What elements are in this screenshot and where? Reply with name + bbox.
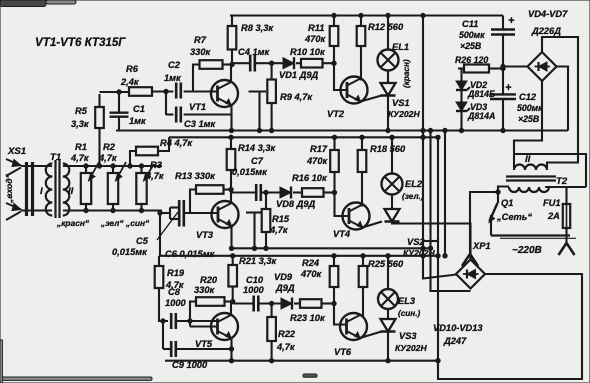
wire bridge minus: [557, 67, 569, 131]
resistor R24: [330, 256, 339, 304]
capacitor C10 label: [243, 275, 265, 295]
plug XP1 pin 1: [462, 254, 478, 266]
thyristor VS3: [381, 319, 396, 332]
potentiometer R3 label: [145, 160, 165, 181]
transistor VT2 label: [327, 109, 345, 119]
resistor R15: [262, 190, 271, 248]
svg-text:470к: 470к: [300, 269, 323, 279]
svg-text:КУ202Н: КУ202Н: [395, 343, 427, 353]
resistor R26: [458, 65, 505, 73]
svg-text:FU1: FU1: [543, 198, 561, 208]
svg-text:VT1: VT1: [189, 102, 206, 112]
lamp EL2 label: [405, 179, 423, 189]
T1 core: [56, 160, 60, 218]
diode VD8 label: [276, 199, 316, 209]
wire XS1 to T1 top: [21, 165, 52, 167]
resistor R20: [188, 297, 233, 326]
caption VT1-VT6 KT315G: [35, 36, 126, 49]
T2 core: [506, 177, 556, 181]
resistor R13: [190, 185, 231, 213]
svg-text:VT6: VT6: [334, 347, 352, 357]
capacitor C9: [161, 319, 176, 357]
svg-text:R16 10к: R16 10к: [292, 173, 328, 183]
resistor R6 label: [120, 64, 140, 87]
label sin: [125, 218, 150, 228]
emitter stub row2: [246, 213, 262, 249]
resistor R11: [330, 16, 339, 64]
svg-text:VT1-VT6 КТ315Г: VT1-VT6 КТ315Г: [35, 36, 126, 49]
wire VD1 to R10: [296, 62, 301, 64]
spare vertical: [443, 128, 447, 258]
ground rail row1: [116, 128, 568, 132]
link row2 grounds: [423, 240, 438, 242]
label krasn: [56, 218, 90, 228]
capacitor C12 plus: [505, 82, 512, 94]
bridge rectifier VD4-VD7: [528, 52, 557, 81]
capacitor C7: [231, 184, 261, 201]
switch Q1 label: [496, 198, 532, 222]
transistor VT1: [211, 80, 238, 107]
capacitor C7 label: [232, 156, 268, 177]
wire VD9 to R23: [294, 302, 300, 304]
resistor R5 label: [71, 106, 90, 129]
svg-text:R15: R15: [272, 214, 290, 224]
fuse FU1: [563, 204, 570, 243]
svg-text:R22: R22: [278, 329, 296, 339]
resistor R23: [300, 299, 322, 308]
svg-text:R12 560: R12 560: [368, 22, 404, 32]
svg-text:Q1: Q1: [501, 198, 513, 208]
svg-text:R5: R5: [75, 106, 88, 116]
T2 winding II: [514, 165, 547, 171]
capacitor C8: [171, 313, 218, 329]
potentiometer R1 label: [70, 142, 90, 163]
wire C7 to VD8: [261, 191, 280, 193]
wire XS1 to T1 bottom: [21, 209, 52, 211]
vertical link C2-C3: [164, 89, 168, 115]
wire XP1 branch: [470, 190, 500, 254]
top rail row1: [230, 13, 503, 17]
svg-text:R14 3,3к: R14 3,3к: [238, 143, 277, 153]
label sin row3: [398, 309, 421, 318]
resistor R7: [193, 60, 232, 91]
wire R23 to R24: [322, 302, 335, 304]
return vertical row2: [428, 128, 470, 291]
zener VD3 label: [467, 102, 495, 121]
thyristor VS1 label: [388, 98, 420, 119]
T1 winding I label: [40, 186, 43, 197]
lamp EL1 label: [392, 42, 409, 52]
T2 winding II label: [525, 154, 531, 165]
feed rail row2: [169, 135, 438, 139]
svg-text:4,7к: 4,7к: [70, 153, 90, 163]
input arrow 1: [6, 159, 21, 176]
svg-text:VD8 Д9Д: VD8 Д9Д: [276, 199, 316, 209]
svg-text:R1: R1: [75, 142, 87, 152]
svg-text:(зел.): (зел.): [402, 192, 424, 201]
svg-text:С7: С7: [251, 156, 264, 166]
capacitor C4: [232, 55, 255, 72]
supply vertical to lamp bridge: [421, 13, 457, 278]
svg-text:Д814А: Д814А: [467, 111, 495, 121]
wire base VT4: [332, 190, 349, 216]
svg-text:R20: R20: [200, 275, 218, 285]
wire pots to C5C6: [159, 211, 161, 256]
resistor R14: [227, 137, 236, 189]
bottom loop to mains bridge: [438, 274, 582, 379]
wire R5 top to R6: [100, 91, 130, 93]
rail link vertical: [436, 135, 440, 363]
svg-text:R25 560: R25 560: [368, 259, 404, 269]
resistor R9: [267, 63, 276, 130]
transformer T2 label: [556, 176, 568, 187]
wire VT5 emitter: [229, 338, 233, 361]
capacitor C2: [176, 83, 181, 99]
label zel row2: [402, 192, 424, 201]
svg-text:+: +: [508, 15, 515, 27]
capacitor C9 label: [172, 360, 208, 370]
transistor VT6: [340, 313, 367, 340]
svg-text:С5: С5: [136, 236, 149, 246]
transistor VT3 label: [196, 230, 214, 240]
wire VT2 emitter to VS1 gate: [361, 96, 382, 102]
svg-text:С11: С11: [462, 19, 478, 29]
transistor VT4: [343, 203, 370, 230]
resistor R8 label: [241, 23, 274, 33]
emitter stub row1: [249, 92, 267, 131]
svg-text:R4 4,7к: R4 4,7к: [160, 138, 193, 148]
svg-text:×25В: ×25В: [518, 114, 540, 124]
wire VT1 emitter: [230, 105, 232, 131]
wire R6 to C2: [152, 90, 173, 92]
potentiometer R2: [108, 162, 126, 211]
ground rail row3: [165, 359, 438, 363]
resistor R18 label: [370, 144, 406, 154]
resistor R19 label: [165, 268, 185, 290]
wire VD8 to R16: [293, 191, 302, 193]
wire bridge ac bottom: [514, 81, 542, 168]
zener VD3: [456, 91, 470, 111]
svg-text:~220В: ~220В: [512, 245, 542, 256]
potentiometer R2 label: [98, 142, 118, 163]
thyristor VS1: [381, 83, 396, 131]
svg-text:VT4: VT4: [333, 229, 351, 239]
mains bottom band: [491, 236, 576, 239]
resistor R26 label: [455, 55, 488, 65]
svg-text:1000: 1000: [165, 298, 187, 308]
resistor R21: [228, 256, 237, 304]
svg-text:500мк: 500мк: [517, 103, 543, 113]
diode VD8: [280, 187, 291, 199]
svg-text:4,7к: 4,7к: [276, 342, 296, 352]
transistor VT4 label: [333, 229, 351, 239]
resistor R25: [359, 256, 368, 287]
svg-text:Д9Д: Д9Д: [275, 283, 295, 293]
wire VS2 cathode to bridge: [392, 222, 471, 260]
resistor R6: [129, 87, 152, 96]
svg-text:R2: R2: [103, 142, 116, 152]
wire C4 to VD1: [255, 61, 283, 65]
svg-text:VT3: VT3: [196, 230, 214, 240]
transistor VT2: [341, 77, 368, 104]
resistor R10: [301, 59, 323, 68]
svg-text:R10 10к: R10 10к: [290, 47, 326, 57]
wire VT5 collector: [230, 302, 232, 316]
label 220V: [512, 245, 542, 256]
resistor R14 label: [238, 143, 277, 153]
svg-text:R7: R7: [194, 35, 207, 45]
svg-text:II: II: [68, 186, 74, 197]
svg-text:VD1 Д9Д: VD1 Д9Д: [279, 70, 319, 80]
transistor VT1 label: [189, 102, 206, 112]
wire T1 II bottom bus: [63, 209, 162, 211]
svg-text:R24: R24: [302, 258, 320, 268]
diode VD9: [281, 298, 292, 310]
upper mains loop: [513, 154, 586, 187]
ground rail row2: [229, 246, 430, 250]
label zel: [100, 218, 124, 228]
resistor R9 label: [280, 92, 313, 102]
capacitor C12 label: [517, 92, 543, 124]
resistor R8: [228, 16, 237, 65]
capacitor C6 label: [165, 249, 216, 259]
svg-text:С8: С8: [168, 287, 181, 297]
capacitor C10: [233, 296, 259, 312]
resistor R18: [358, 137, 367, 172]
resistor R5: [95, 94, 104, 166]
resistor R4 label: [160, 138, 193, 148]
svg-text:R17: R17: [310, 144, 328, 154]
wire C2 to VT1 base: [184, 90, 218, 92]
thyristor VS2 label: [403, 237, 435, 258]
svg-text:VS3: VS3: [399, 331, 417, 341]
thyristor VS2: [385, 209, 400, 222]
svg-text:R18 560: R18 560: [370, 144, 406, 154]
svg-text:С2: С2: [168, 60, 181, 70]
svg-text:1000: 1000: [243, 285, 265, 295]
transformer T1 label: [50, 152, 61, 163]
wire R10 to R11: [323, 62, 335, 64]
svg-text:4,7к: 4,7к: [269, 225, 289, 235]
wire base VT2: [332, 61, 347, 90]
lamp EL1: [378, 16, 399, 84]
resistor R7 label: [190, 35, 212, 57]
svg-text:VT5: VT5: [195, 339, 213, 349]
svg-text:II: II: [525, 154, 531, 165]
wire T1 II top to pots bus: [63, 165, 162, 167]
wire C5 to VT3 base: [184, 212, 218, 214]
svg-text:С6 0,015мк: С6 0,015мк: [165, 249, 216, 259]
capacitor C8 label: [165, 287, 187, 308]
resistor R11 label: [304, 23, 327, 44]
svg-text:R13 330к: R13 330к: [175, 171, 216, 181]
resistor R19: [155, 256, 168, 321]
svg-text:КУ202Н: КУ202Н: [388, 109, 420, 119]
svg-text:330к: 330к: [190, 47, 212, 57]
diode VD1: [283, 57, 294, 69]
wire VD3 to ground: [459, 111, 463, 133]
lamp EL3: [378, 256, 398, 319]
label krasn vertical: [402, 59, 411, 88]
wire VS3 cathode: [387, 332, 389, 361]
wire R18 to VT4 collector: [361, 172, 363, 207]
svg-text:VD4-VD7: VD4-VD7: [528, 9, 568, 19]
svg-text:3,3к: 3,3к: [71, 119, 90, 129]
svg-text:I: I: [40, 186, 43, 197]
capacitor C2 label: [164, 60, 182, 83]
plug XP1 pin 2: [559, 243, 575, 255]
svg-text:С10: С10: [246, 275, 264, 285]
svg-text:330к: 330к: [194, 285, 216, 295]
T2 winding I: [509, 187, 549, 192]
bridge VD4-VD7 label: [528, 9, 568, 36]
wire R16 to R17: [324, 191, 335, 193]
plug XP1 label: [472, 241, 491, 251]
resistor R15 label: [269, 214, 290, 235]
svg-text:VD9: VD9: [274, 272, 293, 282]
resistor R16 label: [292, 173, 328, 183]
wire R25 to VT6 collector: [362, 287, 364, 317]
transistor VT5: [211, 313, 238, 340]
svg-text:Т2: Т2: [556, 176, 568, 187]
svg-text:R8 3,3к: R8 3,3к: [241, 23, 274, 33]
feed rail row3: [159, 254, 438, 258]
junction dots pots: [84, 164, 144, 213]
svg-text:С12: С12: [519, 92, 537, 102]
svg-text:0,015мк: 0,015мк: [232, 167, 268, 177]
T1 winding I: [46, 164, 52, 216]
svg-text:470к: 470к: [306, 156, 329, 166]
resistor R13 label: [175, 171, 216, 181]
T1 winding II: [63, 164, 70, 216]
wire VT3 emitter: [230, 226, 232, 248]
svg-text:470к: 470к: [304, 34, 327, 44]
wire VT6 emitter to VS3 gate: [360, 332, 382, 339]
capacitor C1: [110, 90, 129, 131]
wire C3 lead left: [166, 113, 173, 115]
fuse FU1 label: [543, 198, 561, 221]
wire C9 to emitter line: [176, 348, 232, 350]
wire C10 to VD9: [258, 302, 281, 304]
resistor R16: [302, 188, 324, 197]
capacitor C11 plus: [508, 15, 515, 27]
svg-text:+: +: [505, 82, 512, 94]
capacitor C3 label: [184, 119, 217, 129]
resistor R12: [357, 16, 366, 47]
svg-text:1мк: 1мк: [164, 73, 182, 83]
svg-text:„вход“: „вход“: [4, 173, 14, 204]
capacitor C6: [158, 208, 184, 227]
svg-text:VT2: VT2: [327, 109, 345, 119]
resistor R21 label: [239, 256, 278, 266]
resistor R20 label: [194, 275, 218, 295]
svg-text:„син“: „син“: [125, 218, 150, 228]
wire VT4 emitter to VS2 gate: [363, 222, 383, 228]
resistor R25 label: [368, 259, 404, 269]
wire T2 I right to fuse: [545, 187, 586, 204]
svg-text:0,015мк: 0,015мк: [112, 247, 148, 257]
svg-text:R19: R19: [167, 268, 185, 278]
connector XS1 label: [7, 146, 26, 157]
transistor VT3: [212, 201, 239, 228]
lamp EL3 label: [398, 296, 416, 306]
svg-text:Д247: Д247: [443, 336, 467, 346]
bridge rectifier VD10-VD13: [456, 260, 485, 289]
capacitor C1 label: [129, 104, 147, 126]
transistor VT5 label: [195, 339, 213, 349]
capacitor C4 label: [238, 47, 271, 57]
wire base VT5: [190, 325, 217, 327]
bridge VD10-VD13 label: [433, 323, 483, 346]
wire R12 to VT2 collector: [360, 46, 362, 81]
switch Q1: [489, 203, 498, 236]
resistor R12 label: [368, 22, 404, 32]
capacitor C11: [491, 16, 515, 95]
svg-text:4,7к: 4,7к: [98, 153, 118, 163]
resistor R22 label: [276, 329, 296, 352]
svg-text:Д226Д: Д226Д: [531, 26, 561, 36]
label vhod (vertical): [4, 173, 14, 204]
svg-text:(син.): (син.): [398, 309, 421, 318]
resistor R17: [330, 137, 339, 192]
capacitor C5 label: [112, 212, 178, 257]
wire bridge ac top: [542, 37, 578, 168]
transistor VT6 label: [334, 347, 352, 357]
svg-text:×25В: ×25В: [460, 41, 482, 51]
resistor R17 label: [306, 144, 329, 166]
XS1 jack bars: [27, 162, 33, 216]
svg-text:„Сеть“: „Сеть“: [496, 212, 532, 222]
svg-text:„красн“: „красн“: [56, 218, 90, 228]
svg-text:EL1: EL1: [392, 42, 409, 52]
svg-text:VS1: VS1: [392, 98, 410, 108]
resistor R4: [130, 137, 169, 166]
zener VD2 label: [467, 80, 495, 99]
svg-text:2,4к: 2,4к: [120, 77, 140, 87]
svg-text:VD10-VD13: VD10-VD13: [433, 323, 483, 333]
svg-text:2А: 2А: [547, 211, 560, 221]
potentiometer R3: [136, 164, 154, 211]
zener VD2: [456, 69, 470, 91]
capacitor C11 label: [459, 19, 485, 51]
wire C3 to emitter line: [184, 113, 232, 115]
svg-text:R6: R6: [126, 64, 139, 74]
svg-text:EL3: EL3: [398, 296, 416, 306]
T1 winding II label: [68, 186, 74, 197]
potentiometer R1: [81, 162, 99, 211]
svg-text:С3 1мк: С3 1мк: [184, 119, 217, 129]
wire VT1 collector: [230, 62, 234, 82]
capacitor C12: [490, 94, 516, 132]
input arrow 2: [6, 203, 21, 220]
svg-text:R9 4,7к: R9 4,7к: [280, 92, 313, 102]
svg-text:„зел“: „зел“: [100, 218, 124, 228]
svg-text:(красн): (красн): [402, 59, 411, 88]
wire VT3 collector: [229, 187, 233, 203]
capacitor C3: [176, 107, 181, 123]
capacitor C5: [170, 200, 184, 215]
svg-text:XS1: XS1: [7, 146, 26, 157]
svg-text:R21 3,3к: R21 3,3к: [239, 256, 278, 266]
wire base VT6: [332, 301, 346, 324]
resistor R24 label: [300, 258, 323, 279]
diode VD1 label: [279, 70, 319, 80]
thyristor VS3 label: [395, 331, 427, 353]
wire bridge plus: [501, 64, 528, 68]
diode VD9 label: [274, 272, 295, 293]
resistor R23 label: [290, 313, 326, 323]
svg-text:1мк: 1мк: [129, 116, 147, 126]
